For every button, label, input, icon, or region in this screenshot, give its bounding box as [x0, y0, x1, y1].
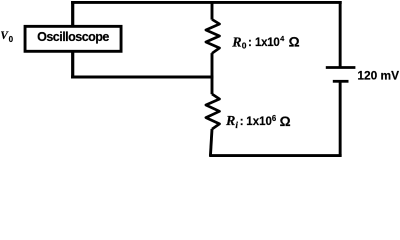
- wire: top horizontal net: [71, 1, 342, 4]
- wire: battery branch bottom lead: [339, 81, 342, 156]
- svg-text:Oscilloscope: Oscilloscope: [37, 30, 109, 44]
- svg-text:6: 6: [272, 114, 277, 123]
- svg-text::: :: [248, 37, 252, 49]
- resistor Ri (zigzag): [206, 94, 220, 129]
- wire: middle horizontal net: [71, 76, 213, 79]
- svg-text:0: 0: [9, 35, 14, 44]
- svg-text:Ω: Ω: [280, 114, 291, 129]
- wire: resistor branch top lead: [211, 1, 214, 20]
- wire: bottom horizontal net: [209, 154, 341, 157]
- label: Ri : 1x10^6 ohm: [225, 114, 291, 131]
- battery V1: bottom plate (short, negative): [333, 80, 349, 83]
- wire: stub from top wire down to oscilloscope box: [71, 1, 74, 28]
- wire: resistor branch middle lead (R0 bottom to Ri top, through middle-wire junction): [211, 53, 214, 94]
- svg-text:120 mV: 120 mV: [357, 68, 399, 82]
- svg-text:R: R: [225, 114, 235, 129]
- svg-text:1x10: 1x10: [255, 37, 280, 49]
- svg-text:R: R: [231, 35, 241, 50]
- wire: battery branch top lead: [339, 1, 342, 68]
- battery V1: top plate (long, positive): [326, 66, 356, 69]
- oscilloscope U1 (box): [25, 26, 121, 51]
- wire: resistor branch bottom lead: [210, 129, 212, 156]
- label: R0 : 1x10^4 ohm: [231, 34, 299, 51]
- svg-text:Ω: Ω: [289, 35, 300, 50]
- resistor R0 (zigzag): [206, 19, 220, 53]
- wire: stub from oscilloscope box down to middle wire: [71, 51, 74, 78]
- label: V0 (node Vo): [0, 30, 13, 44]
- svg-text:0: 0: [242, 41, 247, 51]
- svg-text:i: i: [235, 121, 238, 131]
- svg-text:4: 4: [280, 34, 285, 43]
- svg-text:1x10: 1x10: [246, 116, 272, 128]
- svg-text::: :: [240, 116, 244, 128]
